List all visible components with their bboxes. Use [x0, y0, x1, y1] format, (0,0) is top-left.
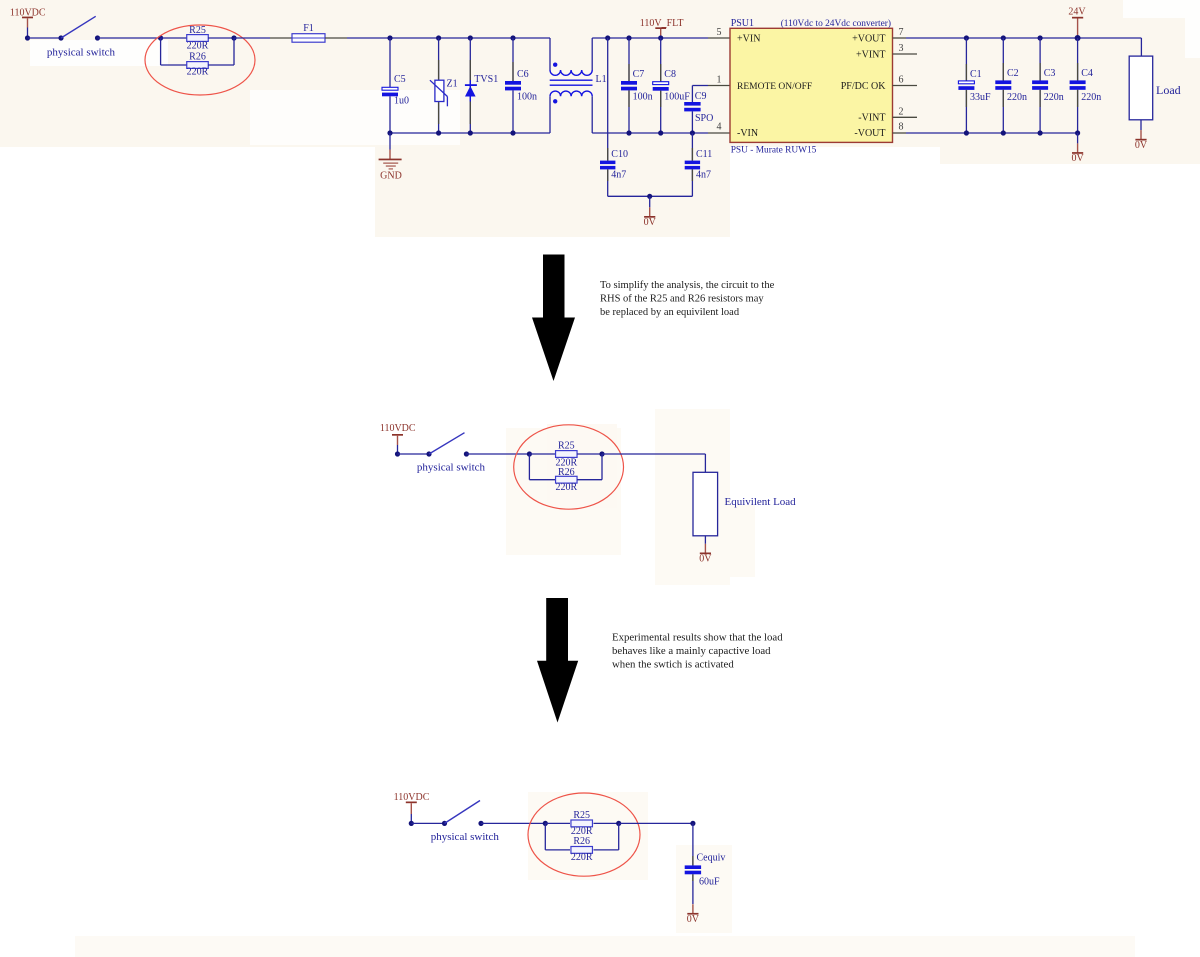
svg-text:6: 6	[899, 74, 904, 85]
svg-text:PSU - Murate RUW15: PSU - Murate RUW15	[731, 146, 817, 156]
svg-text:3: 3	[899, 43, 904, 54]
svg-text:+VOUT: +VOUT	[852, 33, 885, 44]
PSU1 pin 7 +VOUT	[852, 27, 906, 44]
svg-text:24V: 24V	[1068, 6, 1086, 17]
node dot R25 left (middle)	[527, 451, 532, 456]
wire R25 to equivalent load (middle)	[602, 454, 705, 472]
wire switch to R25 (bottom)	[481, 822, 545, 824]
power flag 0V below Load	[1135, 120, 1148, 151]
bottom rail C5 to L1	[390, 132, 550, 134]
node dot R25 right (middle)	[599, 451, 604, 456]
svg-text:TVS1: TVS1	[474, 74, 498, 85]
power flag 0V below equivalent load	[699, 536, 712, 565]
varistor Z1	[430, 35, 458, 135]
PSU1 pin 6 PF/DC OK	[841, 74, 917, 92]
svg-text:R25: R25	[189, 25, 206, 36]
physical switch (middle)	[417, 433, 486, 474]
op-amp/converter block PSU1 (Murata RUW15)	[730, 18, 893, 156]
svg-text:110VDC: 110VDC	[394, 792, 430, 803]
red highlight ellipse (middle)	[514, 425, 624, 509]
node dot R25 left (bottom)	[543, 821, 548, 826]
svg-text:60uF: 60uF	[699, 876, 720, 887]
node A - R25/R26 left junction	[158, 35, 163, 40]
junction dot on 0V net	[647, 194, 652, 199]
svg-text:To simplify the analysis, the: To simplify the analysis, the circuit to…	[600, 280, 775, 291]
svg-text:R26: R26	[558, 467, 575, 478]
capacitor C5 1u0 (polarized)	[382, 35, 409, 133]
physical switch S1 (top)	[47, 16, 116, 58]
svg-text:Equivilent Load: Equivilent Load	[725, 496, 797, 508]
svg-text:C6: C6	[517, 69, 529, 80]
power flag 0V below C10/C11	[644, 196, 657, 228]
TVS diode TVS1	[465, 35, 498, 135]
svg-text:0V: 0V	[1071, 153, 1084, 164]
svg-text:PF/DC OK: PF/DC OK	[841, 81, 887, 92]
big black arrow 1	[532, 255, 575, 382]
resistor R25 220R (bottom)	[545, 810, 618, 837]
wire switch to R25 (middle)	[466, 453, 529, 455]
svg-text:220R: 220R	[187, 67, 209, 78]
wire switch to R25 node	[98, 37, 161, 39]
svg-text:5: 5	[717, 27, 722, 38]
svg-text:0V: 0V	[644, 217, 657, 228]
svg-text:100uF: 100uF	[664, 92, 690, 103]
capacitor C7 100n	[621, 35, 653, 135]
svg-text:-VOUT: -VOUT	[854, 128, 885, 139]
svg-text:physical switch: physical switch	[417, 462, 486, 474]
capacitor C3 220n	[1032, 35, 1064, 135]
node dot at 110VDC	[25, 35, 30, 40]
svg-text:C11: C11	[696, 149, 712, 160]
annotation text block 1	[600, 280, 775, 318]
svg-text:100n: 100n	[517, 92, 537, 103]
power flag 110V_FLT	[640, 18, 684, 38]
PSU1 pin 4 -VIN	[717, 121, 759, 139]
load resistor Load	[1129, 38, 1180, 120]
power flag 0V below C4	[1071, 133, 1084, 164]
svg-text:C2: C2	[1007, 68, 1019, 79]
svg-text:2: 2	[899, 107, 904, 118]
node dot 110VDC (middle)	[395, 451, 400, 456]
node B - R25/R26 right junction	[231, 35, 236, 40]
capacitor C11 4n7 branch to 0V	[685, 133, 713, 196]
svg-text:C3: C3	[1044, 68, 1056, 79]
svg-text:Experimental results show that: Experimental results show that the load	[612, 632, 783, 644]
top rail C5 to L1	[390, 37, 550, 39]
power flag 110VDC (top-left)	[10, 7, 46, 38]
wire F1 to C5 node	[325, 37, 390, 39]
svg-text:4n7: 4n7	[696, 170, 711, 181]
svg-text:0V: 0V	[687, 914, 700, 925]
svg-text:be replaced by an equivilent l: be replaced by an equivilent load	[600, 307, 740, 318]
capacitor C6 100n	[505, 35, 537, 135]
PSU1 pin 8 -VOUT	[854, 121, 906, 139]
svg-text:when the swtich is activated: when the swtich is activated	[612, 659, 734, 671]
svg-text:RHS of the R25 and R26 resisto: RHS of the R25 and R26 resistors may	[600, 294, 764, 305]
power flag 110VDC (bottom)	[394, 792, 430, 824]
node dot at Cequiv branch	[690, 821, 695, 826]
svg-text:C10: C10	[611, 149, 628, 160]
capacitor Cequiv 60uF	[685, 823, 726, 904]
node dot R25 right (bottom)	[616, 821, 621, 826]
svg-text:R26: R26	[573, 836, 590, 847]
svg-text:33uF: 33uF	[970, 92, 991, 103]
common-mode choke L1	[550, 38, 607, 133]
wire R25 to Cequiv (bottom)	[619, 822, 693, 824]
fuse F1	[292, 23, 325, 42]
svg-text:C5: C5	[394, 74, 406, 85]
ground GND symbol below C5	[379, 130, 402, 181]
svg-text:220n: 220n	[1044, 92, 1064, 103]
capacitor C9 SPO connected to pin 1	[684, 86, 730, 136]
capacitor C4 220n	[1070, 35, 1102, 136]
svg-text:GND: GND	[380, 171, 402, 182]
node dot 110VDC (bottom)	[409, 821, 414, 826]
output top rail +VOUT to Load	[906, 37, 1141, 39]
svg-text:220n: 220n	[1081, 92, 1101, 103]
0V net wire joining C10 and C11	[608, 195, 693, 197]
svg-text:C1: C1	[970, 69, 982, 80]
svg-text:R25: R25	[558, 441, 575, 452]
svg-text:F1: F1	[303, 23, 314, 34]
svg-text:PSU1: PSU1	[731, 18, 754, 29]
resistor R26 220R (bottom) with branch wires	[545, 823, 618, 863]
svg-text:behaves like a mainly capactiv: behaves like a mainly capactive load	[612, 645, 771, 657]
big black arrow 2	[537, 598, 578, 723]
red highlight ellipse (bottom)	[528, 793, 640, 876]
top rail L1 to PSU pin 5	[592, 37, 730, 39]
equivalent load resistor (middle)	[693, 472, 796, 536]
capacitor C10 4n7 branch from top rail	[600, 35, 628, 196]
svg-text:R26: R26	[189, 51, 206, 62]
svg-text:REMOTE ON/OFF: REMOTE ON/OFF	[737, 82, 812, 92]
svg-text:(110Vdc to 24Vdc converter): (110Vdc to 24Vdc converter)	[781, 18, 891, 29]
svg-text:100n: 100n	[633, 92, 653, 103]
svg-text:-VINT: -VINT	[858, 113, 885, 124]
svg-text:SPO: SPO	[695, 113, 713, 124]
svg-text:physical switch: physical switch	[431, 831, 500, 843]
svg-text:220R: 220R	[571, 852, 593, 863]
resistor R25 220R (middle)	[529, 441, 602, 469]
capacitor C8 100uF (polarized)	[653, 35, 691, 135]
svg-text:+VIN: +VIN	[737, 33, 760, 44]
physical switch (bottom)	[431, 801, 500, 843]
svg-text:220R: 220R	[187, 41, 209, 52]
wire to switch (middle)	[398, 453, 430, 455]
resistor R26 220R (middle) with branch wires	[529, 454, 602, 493]
bottom rail L1 to PSU pin 4	[592, 132, 730, 134]
svg-text:1: 1	[717, 74, 722, 85]
resistor R25 (top) 220R	[161, 25, 234, 52]
svg-text:1u0: 1u0	[394, 96, 409, 107]
svg-text:8: 8	[899, 121, 904, 132]
svg-text:R25: R25	[573, 810, 590, 821]
capacitor C2 220n	[995, 35, 1027, 135]
wire R25 node to fuse F1	[234, 37, 292, 39]
svg-text:0V: 0V	[699, 554, 712, 565]
svg-text:220n: 220n	[1007, 92, 1027, 103]
PSU1 pin 3 +VINT	[856, 43, 917, 60]
svg-text:4n7: 4n7	[611, 170, 626, 181]
svg-text:C4: C4	[1081, 68, 1093, 79]
svg-text:7: 7	[899, 27, 904, 38]
wire to switch (bottom)	[411, 822, 444, 824]
power flag 24V	[1068, 6, 1086, 38]
red highlight ellipse around R25/R26 (top)	[145, 25, 255, 95]
output bottom rail -VOUT to C4	[906, 132, 1078, 134]
PSU1 pin 1 REMOTE ON/OFF	[717, 74, 813, 92]
power flag 0V below Cequiv	[687, 904, 700, 925]
svg-text:220R: 220R	[555, 482, 577, 493]
resistor R26 (top) 220R with branch wires	[161, 38, 234, 78]
svg-text:4: 4	[717, 121, 722, 132]
PSU1 pin 2 -VINT	[858, 107, 917, 124]
svg-text:+VINT: +VINT	[856, 49, 886, 60]
svg-text:C8: C8	[664, 69, 676, 80]
power flag 110VDC (middle)	[380, 423, 416, 454]
svg-text:0V: 0V	[1135, 140, 1148, 151]
svg-text:-VIN: -VIN	[737, 128, 758, 139]
svg-text:110VDC: 110VDC	[380, 423, 416, 434]
annotation text block 2	[612, 632, 783, 671]
svg-text:physical switch: physical switch	[47, 46, 116, 58]
wire 110VDC to switch	[28, 37, 62, 39]
capacitor C1 33uF (polarized)	[958, 35, 991, 135]
svg-text:Load: Load	[1156, 83, 1181, 97]
svg-text:L1: L1	[596, 74, 607, 85]
svg-text:Cequiv: Cequiv	[697, 852, 726, 863]
svg-text:C9: C9	[695, 91, 707, 102]
svg-text:Z1: Z1	[447, 79, 458, 90]
svg-text:C7: C7	[633, 69, 645, 80]
PSU1 pin 5 +VIN	[717, 27, 761, 44]
